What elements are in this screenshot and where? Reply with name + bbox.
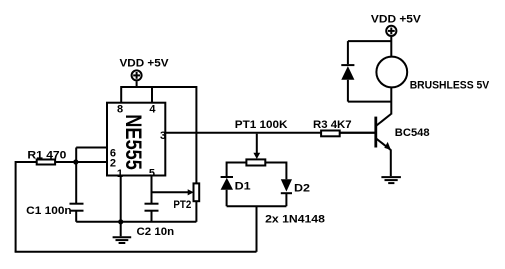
svg-text:3: 3 — [160, 130, 166, 142]
svg-text:R3 4K7: R3 4K7 — [313, 119, 352, 131]
svg-text:C2 10n: C2 10n — [137, 226, 175, 238]
svg-text:4: 4 — [149, 103, 156, 115]
svg-text:D1: D1 — [235, 181, 251, 193]
svg-text:BRUSHLESS 5V: BRUSHLESS 5V — [410, 80, 490, 92]
svg-text:R1 470: R1 470 — [27, 150, 66, 162]
svg-text:VDD +5V: VDD +5V — [120, 58, 170, 70]
svg-text:5: 5 — [149, 168, 155, 180]
svg-text:8: 8 — [117, 103, 123, 115]
svg-text:2x 1N4148: 2x 1N4148 — [265, 214, 325, 226]
svg-text:D2: D2 — [294, 183, 310, 195]
svg-text:PT2: PT2 — [173, 199, 191, 211]
svg-text:PT1 100K: PT1 100K — [235, 119, 288, 131]
svg-text:1: 1 — [117, 168, 123, 180]
svg-text:NE555: NE555 — [121, 114, 146, 170]
svg-text:BC548: BC548 — [395, 127, 430, 139]
svg-text:VDD +5V: VDD +5V — [371, 14, 422, 26]
svg-text:C1 100n: C1 100n — [26, 205, 72, 217]
svg-text:2: 2 — [110, 158, 116, 170]
